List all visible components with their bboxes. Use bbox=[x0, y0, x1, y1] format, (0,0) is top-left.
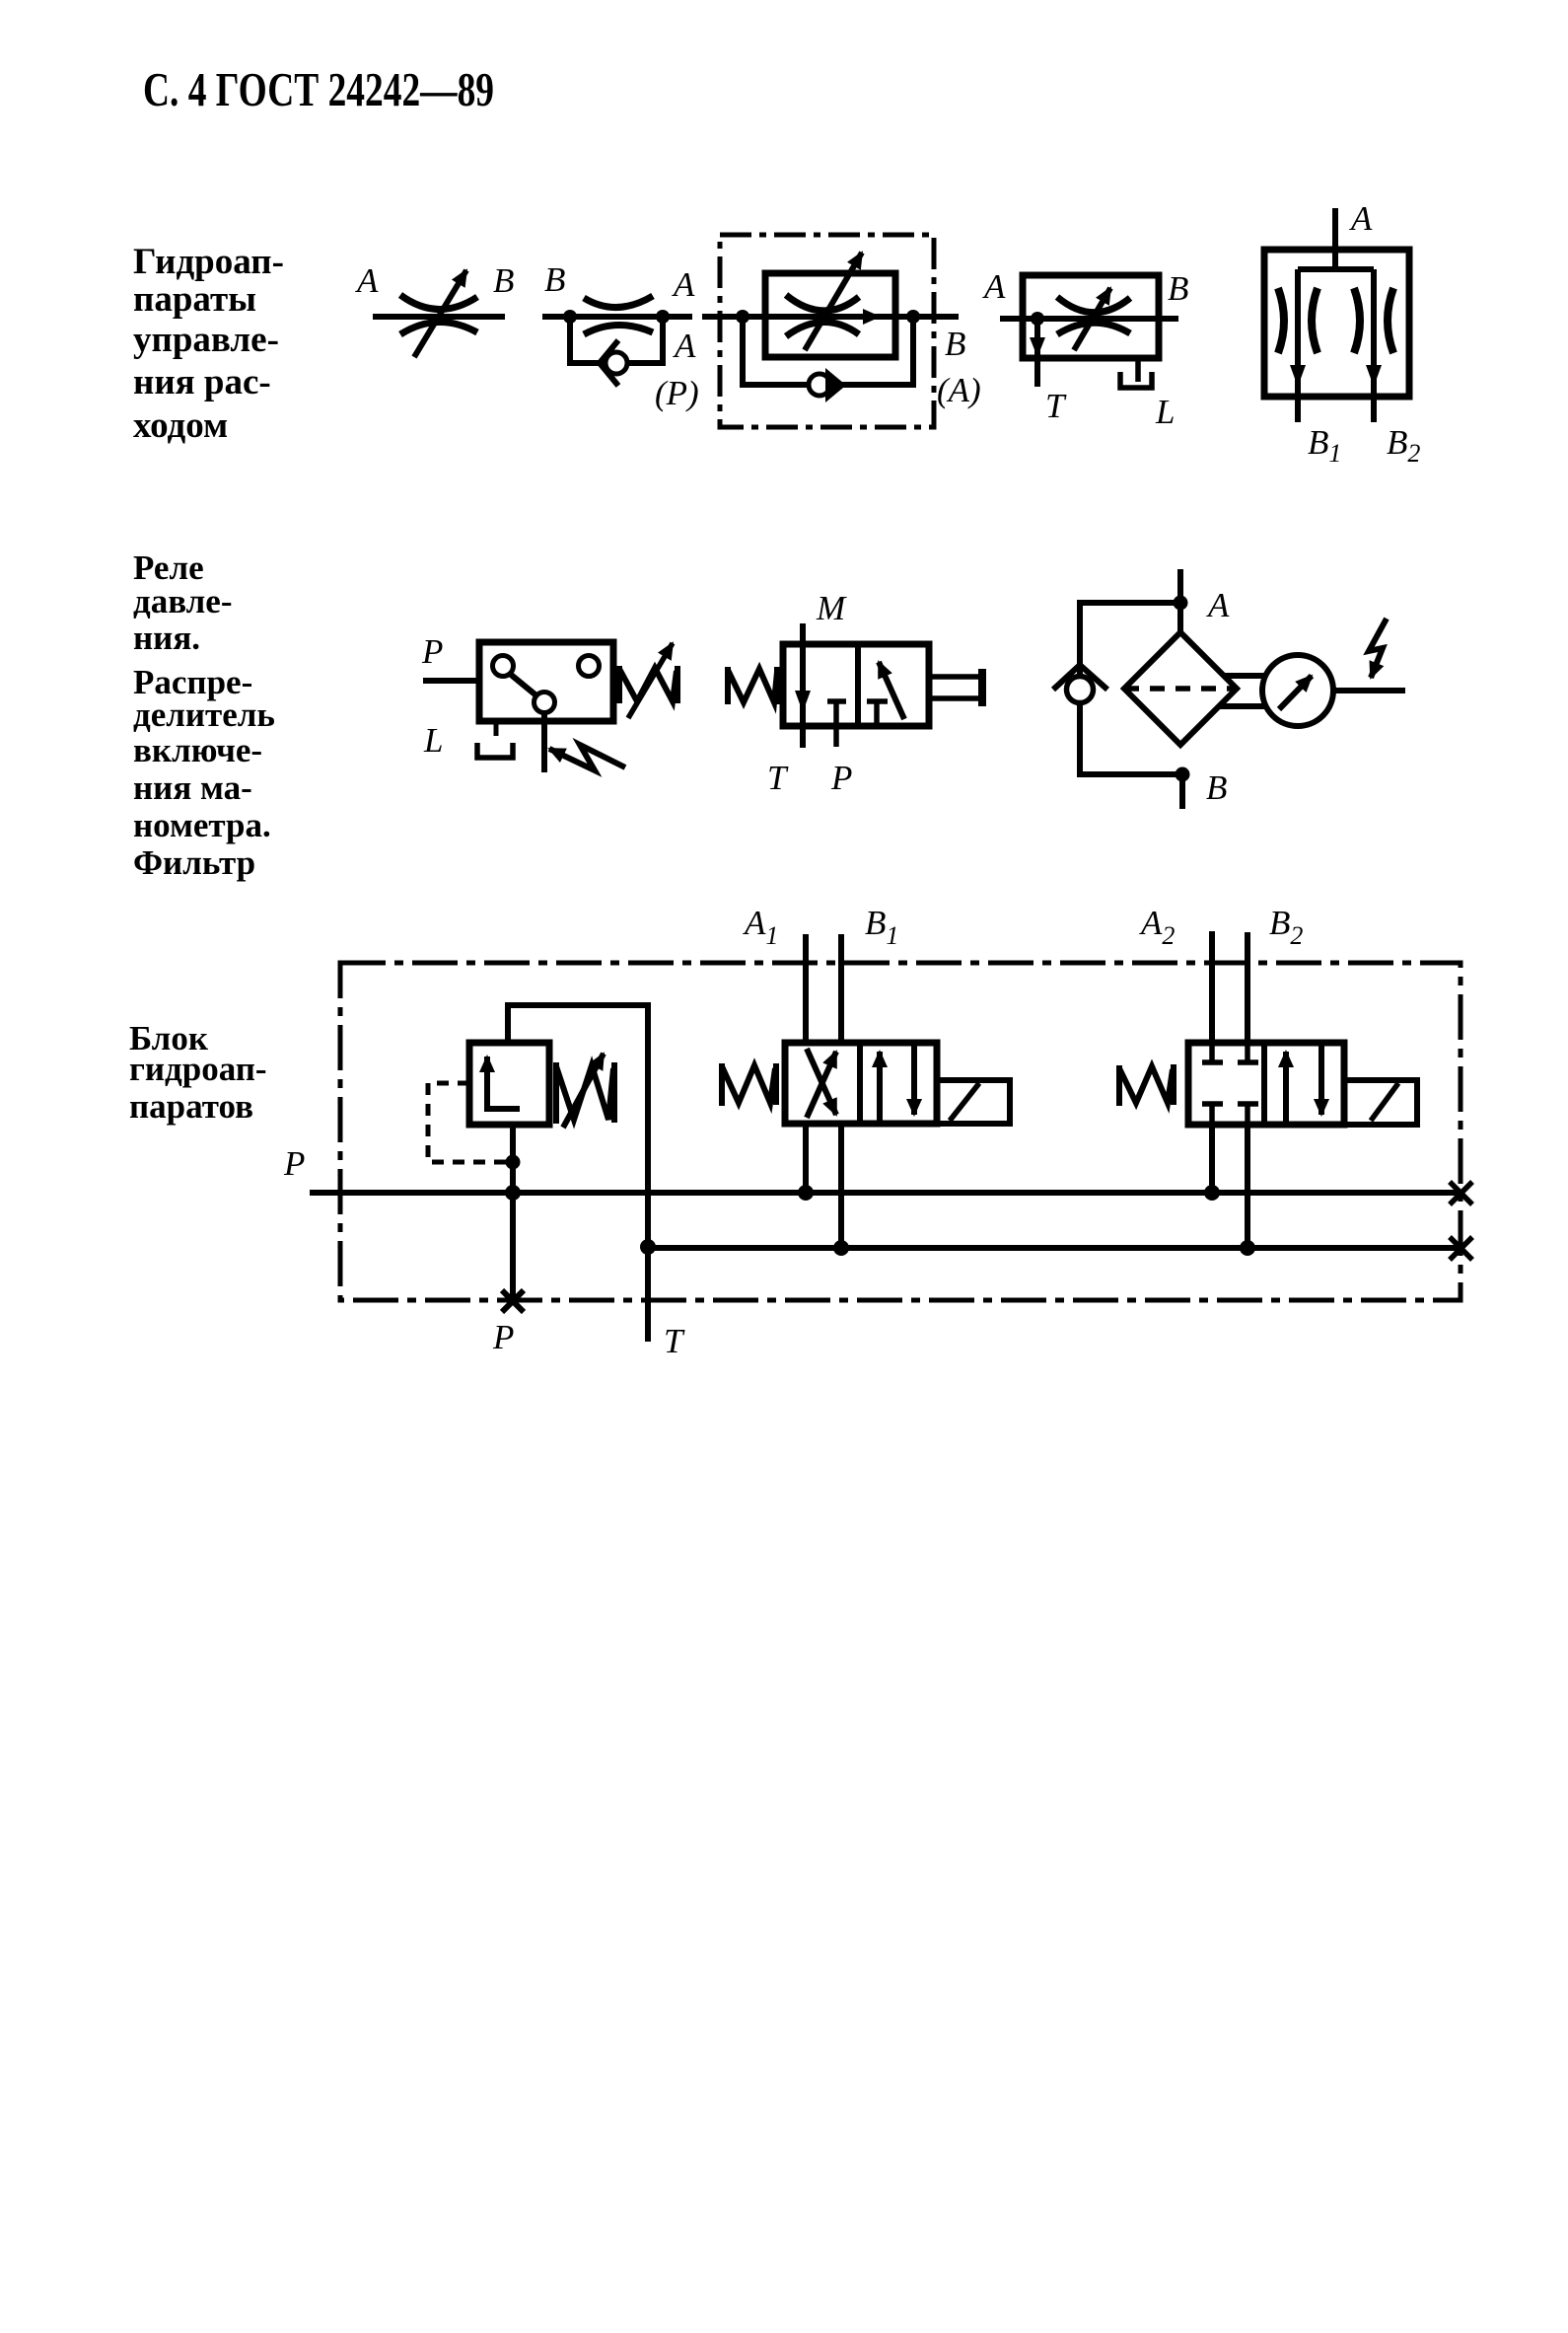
node left junction bbox=[563, 310, 577, 324]
relief valve box bbox=[469, 1043, 549, 1125]
node A bbox=[1174, 596, 1188, 611]
flow direction arrowhead bbox=[863, 309, 881, 325]
divider V1 bbox=[857, 1043, 863, 1124]
node A1-P bbox=[798, 1185, 814, 1201]
port label (A) bbox=[937, 371, 981, 409]
branch wire B2 with arrow bbox=[1366, 269, 1382, 422]
svg-text:A: A bbox=[1206, 586, 1230, 624]
wire A1 to P bbox=[803, 1124, 809, 1193]
svg-text:A1: A1 bbox=[743, 904, 778, 950]
svg-text:B: B bbox=[1206, 768, 1227, 807]
svg-text:управле-: управле- bbox=[133, 320, 279, 360]
node B1-T bbox=[833, 1240, 849, 1256]
enclosure dash-dot box bbox=[720, 235, 934, 427]
bypass wire bbox=[1080, 603, 1180, 774]
svg-text:A2: A2 bbox=[1139, 904, 1175, 950]
wire B2 top bbox=[1245, 932, 1250, 1043]
svg-text:Фильтр: Фильтр bbox=[133, 843, 255, 882]
port label A2 bbox=[1139, 904, 1175, 950]
port label B1 bbox=[865, 904, 898, 950]
blocked ports top bbox=[1202, 1043, 1258, 1062]
port label A1 bbox=[743, 904, 778, 950]
svg-text:B: B bbox=[493, 261, 514, 300]
svg-text:B: B bbox=[544, 260, 565, 299]
svg-text:С. 4 ГОСТ 24242—89: С. 4 ГОСТ 24242—89 bbox=[143, 62, 494, 116]
divider bbox=[855, 644, 861, 726]
spring adjustment arrow bbox=[628, 643, 673, 718]
throttle arcs bbox=[1057, 297, 1130, 334]
wire M-T with arrow bbox=[795, 623, 811, 748]
bypass check valve bbox=[1053, 665, 1107, 703]
solenoid V1 bbox=[937, 1080, 1010, 1124]
svg-text:P: P bbox=[421, 632, 443, 671]
plunger actuator bbox=[929, 669, 982, 706]
svg-text:Гидроап-: Гидроап- bbox=[133, 242, 284, 282]
svg-text:A: A bbox=[1349, 199, 1373, 238]
port label M bbox=[816, 589, 847, 627]
spring bbox=[728, 667, 777, 704]
lightning bolt bbox=[1369, 619, 1387, 678]
svg-text:B: B bbox=[1168, 269, 1188, 308]
plugged port X bbox=[502, 1290, 524, 1312]
contact circle right bbox=[579, 656, 600, 677]
check valve bbox=[809, 368, 846, 402]
port label P left bbox=[283, 1144, 305, 1183]
port label A bbox=[355, 261, 379, 300]
blocked port P bbox=[827, 701, 846, 747]
row label: Реле давления. Распределитель включения манометра. Фильтр bbox=[133, 548, 275, 882]
wire A2 to P bbox=[1209, 1125, 1215, 1193]
wire A-B bbox=[1000, 316, 1178, 322]
gauge circle bbox=[1262, 655, 1333, 726]
port label B bbox=[493, 261, 514, 300]
svg-text:параты: параты bbox=[133, 279, 256, 320]
svg-text:ния.: ния. bbox=[133, 619, 200, 657]
spring V2 bbox=[1119, 1064, 1174, 1106]
svg-text:нометра.: нометра. bbox=[133, 806, 271, 844]
relief valve outlet wire to T bbox=[508, 1005, 648, 1342]
wire A top bbox=[1177, 569, 1183, 636]
switch output wire bbox=[541, 713, 547, 772]
drain wire bbox=[494, 721, 499, 736]
svg-text:P: P bbox=[830, 759, 852, 797]
svg-text:L: L bbox=[423, 721, 443, 760]
port label (P) bbox=[655, 374, 699, 412]
port label B bbox=[1168, 269, 1188, 308]
svg-text:ния ма-: ния ма- bbox=[133, 768, 252, 807]
svg-text:A: A bbox=[982, 267, 1006, 306]
row label: Гидроаппараты управления расходом bbox=[133, 242, 284, 446]
filter diamond bbox=[1124, 632, 1237, 745]
svg-text:M: M bbox=[816, 589, 847, 627]
svg-text:L: L bbox=[1155, 393, 1175, 431]
gauge needle arrow bbox=[1279, 676, 1312, 709]
electric zigzag arrow bbox=[549, 745, 625, 770]
bypass wire bbox=[743, 317, 913, 385]
port label P bbox=[421, 632, 443, 671]
node left junction bbox=[736, 310, 749, 324]
wire A bbox=[1332, 208, 1338, 272]
port label B2 bbox=[1269, 904, 1303, 950]
spring bbox=[619, 666, 677, 703]
wire B2 to T bbox=[1245, 1125, 1250, 1248]
throttle box bbox=[765, 273, 895, 357]
svg-text:паратов: паратов bbox=[129, 1087, 253, 1126]
wire B bottom bbox=[1179, 774, 1185, 809]
node right junction bbox=[656, 310, 670, 324]
node junction bbox=[1031, 312, 1044, 326]
throttle arcs bbox=[584, 296, 653, 334]
wire B1 top bbox=[838, 934, 844, 1043]
blocked port right square bbox=[867, 701, 888, 724]
svg-text:B: B bbox=[945, 325, 965, 363]
restrictor arcs left pair bbox=[1278, 288, 1318, 353]
wire P main bbox=[310, 1190, 1461, 1196]
port label T bbox=[1045, 387, 1067, 425]
relief valve inlet wire bbox=[510, 1125, 516, 1301]
wire A2 top bbox=[1209, 931, 1215, 1043]
port label B bbox=[945, 325, 965, 363]
svg-text:гидроап-: гидроап- bbox=[129, 1050, 267, 1088]
flow arrow right square bbox=[879, 662, 904, 719]
adjustment arrow bbox=[1074, 288, 1110, 350]
svg-text:A: A bbox=[672, 265, 695, 304]
wire T main bbox=[648, 1245, 1461, 1251]
port label T bbox=[767, 759, 789, 797]
svg-text:(A): (A) bbox=[937, 371, 981, 409]
port label A bbox=[1349, 199, 1373, 238]
valve V1 body bbox=[785, 1043, 937, 1124]
branch wire B1 with arrow bbox=[1290, 269, 1306, 422]
svg-text:ходом: ходом bbox=[133, 405, 228, 446]
port label B bbox=[1206, 768, 1227, 807]
relay box bbox=[479, 642, 613, 721]
port label A bbox=[1206, 586, 1230, 624]
port label P bottom bbox=[492, 1318, 514, 1356]
svg-text:T: T bbox=[767, 759, 789, 797]
contact circle left bbox=[493, 656, 514, 677]
restrictor arcs right pair bbox=[1354, 288, 1393, 353]
filter element dashed bbox=[1124, 686, 1237, 692]
node B bbox=[1176, 767, 1190, 782]
svg-text:делитель: делитель bbox=[133, 695, 275, 734]
relief valve spring bbox=[556, 1062, 614, 1124]
svg-text:B1: B1 bbox=[865, 904, 898, 950]
svg-text:A: A bbox=[673, 327, 696, 365]
bypass wire bbox=[570, 317, 663, 363]
inner box top bbox=[1298, 266, 1374, 272]
svg-text:включе-: включе- bbox=[133, 731, 262, 769]
svg-text:T: T bbox=[1045, 387, 1067, 425]
svg-text:A: A bbox=[355, 261, 379, 300]
port label L bbox=[423, 721, 443, 760]
port label L bbox=[1155, 393, 1175, 431]
page header С. 4 ГОСТ 24242-89 bbox=[143, 62, 494, 116]
adjustment arrow bbox=[805, 253, 862, 350]
wire through bbox=[702, 314, 959, 320]
port label A bbox=[673, 327, 696, 365]
wire A1 top bbox=[803, 934, 809, 1043]
plugged end T asterisk bbox=[1450, 1237, 1472, 1260]
svg-text:B2: B2 bbox=[1387, 423, 1420, 468]
row label: Блок гидроаппаратов bbox=[129, 1019, 267, 1126]
pilot node bbox=[506, 1155, 521, 1170]
drain symbol bbox=[1120, 372, 1152, 388]
svg-text:(P): (P) bbox=[655, 374, 699, 412]
svg-text:T: T bbox=[664, 1322, 685, 1360]
port label A bbox=[982, 267, 1006, 306]
valve box bbox=[1023, 275, 1159, 358]
node B2-T bbox=[1240, 1240, 1255, 1256]
svg-text:P: P bbox=[283, 1144, 305, 1183]
wire A-B bbox=[373, 314, 505, 320]
wire to T with arrow bbox=[1030, 319, 1045, 387]
node right junction bbox=[906, 310, 920, 324]
valve body bbox=[783, 644, 929, 726]
drain wire L bbox=[1135, 358, 1141, 382]
port label P bbox=[830, 759, 852, 797]
solenoid V2 bbox=[1344, 1080, 1417, 1125]
check valve bbox=[600, 340, 627, 386]
throttle arcs bbox=[786, 295, 859, 336]
adjustment arrow bbox=[414, 270, 466, 357]
wire B-A bbox=[542, 314, 692, 320]
relief valve internal arrow bbox=[487, 1057, 520, 1109]
wire P bbox=[423, 678, 479, 684]
electric wire bbox=[1333, 688, 1405, 693]
connector to gauge bbox=[1220, 676, 1264, 706]
straight arrows right square V2 bbox=[1286, 1043, 1321, 1125]
svg-text:ния рас-: ния рас- bbox=[133, 362, 271, 402]
blocked ports bottom bbox=[1202, 1104, 1258, 1125]
port label A bbox=[672, 265, 695, 304]
drain symbol bbox=[477, 743, 513, 758]
svg-text:P: P bbox=[492, 1318, 514, 1356]
throttle arcs bbox=[400, 295, 477, 334]
straight arrows right square bbox=[880, 1043, 914, 1124]
valve V2 body bbox=[1188, 1043, 1344, 1125]
port label B2 bbox=[1387, 423, 1420, 468]
crossed arrows bbox=[807, 1049, 836, 1118]
node A2-P bbox=[1204, 1185, 1220, 1201]
contact circle bottom bbox=[535, 693, 555, 713]
wire B1 to T bbox=[838, 1124, 844, 1248]
svg-text:B1: B1 bbox=[1308, 423, 1341, 468]
switch lever bbox=[510, 674, 537, 696]
pilot dashed wire bbox=[428, 1083, 507, 1162]
port label B bbox=[544, 260, 565, 299]
port label T bottom bbox=[664, 1322, 685, 1360]
node T junction bbox=[640, 1239, 656, 1255]
svg-text:давле-: давле- bbox=[133, 582, 232, 620]
port label B1 bbox=[1308, 423, 1341, 468]
enclosure dash-dot border bbox=[340, 963, 1461, 1300]
plugged end P asterisk bbox=[1450, 1182, 1472, 1204]
divider V2 bbox=[1261, 1043, 1267, 1125]
node P junction relief bbox=[505, 1185, 521, 1201]
spring V1 bbox=[722, 1063, 776, 1106]
outer box bbox=[1264, 250, 1409, 397]
relief spring arrow bbox=[563, 1054, 604, 1128]
svg-text:B2: B2 bbox=[1269, 904, 1303, 950]
